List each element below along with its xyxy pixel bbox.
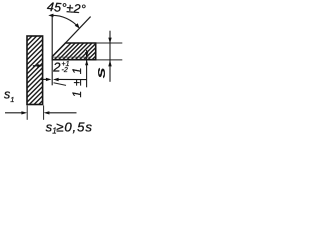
plate 1 (vertical flange, thickness s1) <box>24 18 50 124</box>
stray stroke under root line <box>54 83 67 86</box>
bevel extension line <box>65 17 91 44</box>
s dimension line with outside arrows <box>93 31 111 82</box>
dimension 1+-1 (root face) <box>70 50 89 98</box>
svg-text:45°±2°: 45°±2° <box>47 0 87 17</box>
s dimension extension lines (right) <box>96 42 122 44</box>
angle dimension arc <box>52 15 78 27</box>
vertical reference/extension line through bevel root <box>51 15 53 86</box>
angle arc left arrowhead <box>48 14 53 18</box>
svg-text:-2: -2 <box>62 67 68 74</box>
svg-text:1±1: 1±1 <box>70 63 84 98</box>
plate 2 (horizontal wall, thickness s, beveled edge) <box>48 36 120 66</box>
svg-text:≥0,5s: ≥0,5s <box>56 120 93 135</box>
root face extension line <box>53 56 92 58</box>
gap dimension arrow (points at plate 1 right edge) <box>33 64 43 68</box>
svg-text:1: 1 <box>10 95 14 104</box>
label s1 <box>4 87 14 104</box>
svg-text:s: s <box>93 67 108 79</box>
gap dimension opposing arrows at root line <box>41 78 87 82</box>
note s1 >= 0,5s <box>46 120 93 136</box>
svg-text:2: 2 <box>52 60 61 75</box>
s1 dimension extension lines (bottom) <box>26 105 28 119</box>
angle arc right arrowhead <box>75 23 80 28</box>
label 2 +1/-2 <box>52 60 69 75</box>
s1 dimension line with outside arrows <box>5 111 77 114</box>
